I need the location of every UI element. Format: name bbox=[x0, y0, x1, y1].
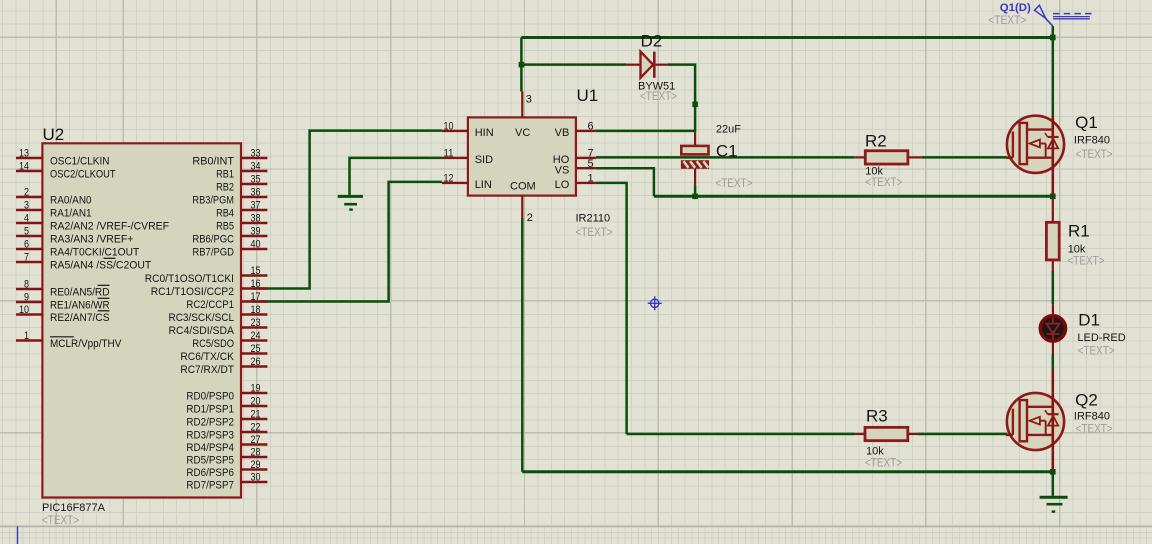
svg-text:RD6/PSP6: RD6/PSP6 bbox=[186, 467, 234, 479]
svg-text:RC1/T1OSI/CCP2: RC1/T1OSI/CCP2 bbox=[151, 286, 234, 298]
LED D1 LED-RED bbox=[1040, 304, 1065, 354]
svg-text:RA1/AN1: RA1/AN1 bbox=[50, 207, 92, 219]
svg-text:VS: VS bbox=[555, 164, 570, 176]
wire R2 to Q1 gate bbox=[921, 156, 1007, 159]
U1 pin 5 VS bbox=[555, 158, 596, 177]
svg-text:37: 37 bbox=[251, 200, 261, 212]
svg-text:11: 11 bbox=[444, 148, 454, 160]
svg-text:VB: VB bbox=[555, 127, 570, 139]
svg-text:5: 5 bbox=[588, 158, 594, 170]
resistor R3 10k bbox=[854, 427, 918, 440]
svg-text:C1: C1 bbox=[716, 142, 738, 161]
svg-text:VC: VC bbox=[515, 127, 530, 139]
overbar RD bbox=[98, 284, 110, 286]
U2 pin 27 bbox=[241, 434, 267, 446]
svg-text:4: 4 bbox=[24, 213, 29, 225]
capacitor C1 22uF bbox=[681, 132, 709, 185]
svg-text:10k: 10k bbox=[865, 165, 883, 177]
svg-text:14: 14 bbox=[19, 161, 29, 173]
svg-text:10: 10 bbox=[19, 304, 29, 316]
svg-text:12: 12 bbox=[444, 173, 454, 185]
wire U1 VS to source rail bbox=[596, 168, 654, 196]
overbar MCLR bbox=[50, 336, 74, 338]
svg-text:IRF840: IRF840 bbox=[1074, 410, 1110, 422]
U2 pin 22 bbox=[241, 422, 267, 434]
svg-text:HIN: HIN bbox=[475, 127, 494, 139]
U2 pin 18 bbox=[241, 304, 267, 316]
svg-text:15: 15 bbox=[251, 265, 261, 277]
svg-text:R3: R3 bbox=[866, 407, 888, 426]
svg-text:6: 6 bbox=[24, 239, 29, 251]
svg-text:RD1/PSP1: RD1/PSP1 bbox=[186, 403, 234, 415]
svg-text:21: 21 bbox=[251, 409, 261, 421]
U1 pin 11 SID bbox=[442, 148, 493, 167]
svg-text:24: 24 bbox=[251, 330, 261, 342]
svg-text:<TEXT>: <TEXT> bbox=[1076, 424, 1113, 436]
wire VCC top rail bbox=[521, 36, 1052, 39]
ground (bottom rail) bbox=[1040, 497, 1068, 511]
transistor Q2 IRF840 bbox=[1006, 370, 1064, 471]
wire U1 COM down bbox=[521, 218, 524, 472]
wire D2 cathode to C1 node bbox=[668, 65, 695, 133]
overbar CS bbox=[98, 310, 110, 312]
svg-text:<TEXT>: <TEXT> bbox=[576, 227, 613, 239]
svg-text:LED-RED: LED-RED bbox=[1077, 332, 1125, 344]
U2 pin 8 bbox=[16, 279, 42, 291]
svg-text:OSC1/CLKIN: OSC1/CLKIN bbox=[50, 155, 110, 167]
svg-text:22: 22 bbox=[251, 422, 261, 434]
svg-text:RB4: RB4 bbox=[216, 207, 234, 219]
resistor R1 10k (vertical) bbox=[1046, 199, 1059, 272]
svg-text:23: 23 bbox=[251, 317, 261, 329]
svg-text:RC0/T1OSO/T1CKI: RC0/T1OSO/T1CKI bbox=[145, 273, 234, 285]
svg-text:<TEXT>: <TEXT> bbox=[640, 91, 677, 103]
overbar SS bbox=[104, 257, 116, 259]
sheet border corner (blue) bbox=[17, 527, 19, 544]
svg-text:Q2: Q2 bbox=[1075, 390, 1098, 409]
svg-text:RC3/SCK/SCL: RC3/SCK/SCL bbox=[169, 312, 235, 324]
svg-text:RB7/PGD: RB7/PGD bbox=[192, 246, 234, 258]
U2 pin 1 bbox=[16, 330, 42, 342]
U2 pin 10 bbox=[16, 304, 42, 316]
wire U2 RC1 to U1 HIN bbox=[252, 131, 442, 289]
svg-text:RA5/AN4 /SS/C2OUT: RA5/AN4 /SS/C2OUT bbox=[50, 259, 151, 271]
svg-text:10k: 10k bbox=[1068, 243, 1086, 255]
wire C1 bottom to VS rail bbox=[694, 185, 697, 196]
U2 pin 38 bbox=[241, 213, 267, 225]
junction C1 bottom / VS rail bbox=[692, 194, 698, 200]
U2 pin 28 bbox=[241, 447, 267, 459]
svg-text:39: 39 bbox=[251, 226, 261, 238]
svg-text:8: 8 bbox=[24, 279, 29, 291]
svg-text:<TEXT>: <TEXT> bbox=[1068, 256, 1105, 268]
svg-text:D1: D1 bbox=[1078, 311, 1100, 330]
svg-text:RC7/RX/DT: RC7/RX/DT bbox=[180, 364, 234, 376]
U2 pin 6 bbox=[16, 239, 42, 251]
svg-text:RB3/PGM: RB3/PGM bbox=[192, 194, 234, 206]
svg-text:RB5: RB5 bbox=[216, 220, 234, 232]
svg-text:3: 3 bbox=[526, 94, 532, 106]
svg-text:40: 40 bbox=[251, 239, 261, 251]
svg-text:<TEXT>: <TEXT> bbox=[1076, 149, 1113, 161]
wire U1 LO down bbox=[596, 183, 627, 434]
svg-text:RB0/INT: RB0/INT bbox=[192, 155, 234, 167]
svg-text:RE1/AN6/WR: RE1/AN6/WR bbox=[50, 299, 110, 311]
U2 pin 15 bbox=[241, 265, 267, 277]
svg-text:IRF840: IRF840 bbox=[1074, 135, 1110, 147]
U2 pin 30 bbox=[241, 472, 267, 484]
svg-text:35: 35 bbox=[251, 174, 261, 186]
svg-text:RD7/PSP7: RD7/PSP7 bbox=[186, 479, 234, 491]
wire U1 SID to ground bbox=[350, 158, 442, 195]
svg-text:PIC16F877A: PIC16F877A bbox=[42, 502, 106, 514]
wire U1 VB to C1 top bbox=[596, 130, 695, 133]
svg-text:RB2: RB2 bbox=[216, 181, 234, 193]
U2 pin 33 bbox=[241, 148, 267, 160]
svg-text:18: 18 bbox=[251, 304, 261, 316]
wire D1 to Q2 drain bbox=[1052, 355, 1055, 371]
U2 pin 21 bbox=[241, 409, 267, 421]
microcontroller U2 PIC16F877A body bbox=[42, 143, 241, 497]
svg-text:10: 10 bbox=[444, 121, 454, 133]
svg-text:1: 1 bbox=[24, 330, 29, 342]
voltage probe Q1(D) bbox=[1035, 5, 1094, 26]
svg-text:RA3/AN3 /VREF+: RA3/AN3 /VREF+ bbox=[50, 233, 133, 245]
U2 pin 25 bbox=[241, 343, 267, 355]
wire COM rail to Q2 source bbox=[522, 470, 1053, 473]
svg-text:29: 29 bbox=[251, 459, 261, 471]
svg-text:R1: R1 bbox=[1068, 222, 1090, 241]
svg-text:LO: LO bbox=[555, 179, 570, 191]
svg-text:17: 17 bbox=[251, 291, 261, 303]
svg-text:<TEXT>: <TEXT> bbox=[865, 458, 902, 470]
svg-text:RD0/PSP0: RD0/PSP0 bbox=[186, 390, 234, 402]
svg-text:SID: SID bbox=[475, 154, 493, 166]
sheet border bottom edge bbox=[0, 526, 1152, 528]
svg-text:7: 7 bbox=[24, 252, 29, 264]
svg-text:28: 28 bbox=[251, 447, 261, 459]
svg-text:RA2/AN2 /VREF-/CVREF: RA2/AN2 /VREF-/CVREF bbox=[50, 220, 169, 232]
svg-text:9: 9 bbox=[24, 292, 29, 304]
junction top rail / probe bbox=[1050, 35, 1056, 41]
gate driver U1 IR2110 body bbox=[468, 117, 576, 195]
svg-text:1: 1 bbox=[588, 173, 594, 185]
U2 pin 3 bbox=[16, 200, 42, 212]
resistor R2 10k bbox=[854, 151, 921, 164]
svg-text:27: 27 bbox=[251, 434, 261, 446]
overbar WR bbox=[98, 297, 110, 299]
origin marker (blue crosshair) bbox=[648, 296, 662, 310]
svg-text:19: 19 bbox=[251, 383, 261, 395]
svg-text:26: 26 bbox=[251, 356, 261, 368]
U2 pin 7 bbox=[16, 252, 42, 264]
svg-text:20: 20 bbox=[251, 396, 261, 408]
svg-text:OSC2/CLKOUT: OSC2/CLKOUT bbox=[50, 168, 116, 180]
U2 pin 9 bbox=[16, 292, 42, 304]
svg-text:6: 6 bbox=[588, 121, 594, 133]
junction Q1 source / VS rail bbox=[1050, 194, 1056, 200]
U1 pin 1 LO bbox=[555, 173, 596, 192]
U2 pin 26 bbox=[241, 356, 267, 368]
wire VCC to D2 anode bbox=[521, 63, 626, 66]
U2 pin 17 bbox=[241, 291, 267, 303]
U2 pin 4 bbox=[16, 213, 42, 225]
wire U1 HO to R2 to Q1 gate bbox=[596, 156, 854, 159]
svg-text:<TEXT>: <TEXT> bbox=[865, 177, 902, 189]
junction Q2 source / COM rail bbox=[1050, 469, 1056, 475]
svg-text:<TEXT>: <TEXT> bbox=[988, 13, 1026, 27]
svg-text:33: 33 bbox=[251, 148, 261, 160]
ground (U1 SID) bbox=[338, 196, 363, 209]
svg-text:36: 36 bbox=[251, 187, 261, 199]
svg-text:22uF: 22uF bbox=[716, 124, 741, 136]
svg-text:Q1: Q1 bbox=[1075, 113, 1098, 132]
svg-text:<TEXT>: <TEXT> bbox=[715, 178, 752, 190]
svg-text:RC5/SDO: RC5/SDO bbox=[192, 338, 234, 350]
junction VCC/D2 branch bbox=[519, 62, 525, 68]
svg-text:10k: 10k bbox=[866, 446, 884, 458]
wire R1 to D1 bbox=[1052, 271, 1055, 304]
U1 pin 12 LIN bbox=[442, 173, 492, 192]
U2 pin 37 bbox=[241, 200, 267, 212]
svg-text:RD3/PSP3: RD3/PSP3 bbox=[186, 429, 234, 441]
U2 pin 19 bbox=[241, 383, 267, 395]
wire LO to R3 bbox=[627, 433, 855, 436]
U2 pin 2 bbox=[16, 187, 42, 199]
svg-text:RD5/PSP5: RD5/PSP5 bbox=[186, 454, 234, 466]
junction D2-C1 node bbox=[692, 102, 698, 108]
U2 pin 20 bbox=[241, 396, 267, 408]
svg-text:30: 30 bbox=[251, 472, 261, 484]
wire VCC rail to U1 VC bbox=[520, 38, 523, 92]
U2 pin 29 bbox=[241, 459, 267, 471]
transistor Q1 IRF840 bbox=[1006, 116, 1064, 194]
U2 pin 36 bbox=[241, 187, 267, 199]
svg-text:RB1: RB1 bbox=[216, 168, 234, 180]
wire Q2 source to ground bbox=[1052, 470, 1055, 496]
svg-text:LIN: LIN bbox=[475, 179, 492, 191]
svg-text:D2: D2 bbox=[641, 32, 663, 51]
svg-text:RC2/CCP1: RC2/CCP1 bbox=[186, 299, 234, 311]
U2 pin 24 bbox=[241, 330, 267, 342]
svg-text:U2: U2 bbox=[43, 125, 65, 144]
U2 pin 23 bbox=[241, 317, 267, 329]
wire U2 RC2 to U1 LIN bbox=[252, 182, 442, 302]
svg-text:RE2/AN7/CS: RE2/AN7/CS bbox=[50, 312, 110, 324]
svg-text:<TEXT>: <TEXT> bbox=[42, 515, 79, 527]
svg-text:RA4/T0CKI/C1OUT: RA4/T0CKI/C1OUT bbox=[50, 246, 139, 258]
svg-text:COM: COM bbox=[510, 181, 536, 193]
U2 pin 34 bbox=[241, 161, 267, 173]
U1 pin 2 COM bbox=[510, 181, 536, 224]
svg-text:16: 16 bbox=[251, 278, 261, 290]
svg-text:2: 2 bbox=[24, 187, 29, 199]
svg-text:RD2/PSP2: RD2/PSP2 bbox=[186, 416, 234, 428]
diode D2 BYW51 bbox=[626, 52, 667, 78]
svg-text:2: 2 bbox=[527, 212, 533, 224]
svg-text:RC6/TX/CK: RC6/TX/CK bbox=[180, 351, 234, 363]
svg-text:RA0/AN0: RA0/AN0 bbox=[50, 194, 92, 206]
wire probe stub bbox=[1052, 26, 1055, 37]
wire VS rail bbox=[654, 195, 1053, 198]
U2 pin 16 bbox=[241, 278, 267, 290]
U2 pin 39 bbox=[241, 226, 267, 238]
svg-text:38: 38 bbox=[251, 213, 261, 225]
U2 pin 13 bbox=[16, 148, 42, 160]
svg-text:RC4/SDI/SDA: RC4/SDI/SDA bbox=[169, 325, 235, 337]
svg-text:13: 13 bbox=[19, 148, 29, 160]
svg-text:U1: U1 bbox=[577, 86, 599, 105]
svg-text:5: 5 bbox=[24, 226, 29, 238]
svg-text:RE0/AN5/RD: RE0/AN5/RD bbox=[50, 286, 110, 298]
U1 pin 6 VB bbox=[555, 121, 596, 140]
wire R3 to Q2 gate bbox=[919, 433, 1008, 436]
U2 pin 14 bbox=[16, 161, 42, 173]
svg-text:MCLR/Vpp/THV: MCLR/Vpp/THV bbox=[50, 338, 122, 350]
svg-text:RB6/PGC: RB6/PGC bbox=[192, 233, 234, 245]
U2 pin 40 bbox=[241, 239, 267, 251]
U2 pin 35 bbox=[241, 174, 267, 186]
svg-text:RD4/PSP4: RD4/PSP4 bbox=[186, 442, 234, 454]
svg-text:3: 3 bbox=[24, 200, 29, 212]
wire rail to Q1 drain bbox=[1052, 38, 1055, 117]
U1 pin 3 VC bbox=[515, 92, 532, 139]
U2 pin 5 bbox=[16, 226, 42, 238]
svg-text:R2: R2 bbox=[865, 132, 887, 151]
U1 pin 7 HO bbox=[553, 148, 596, 167]
svg-text:25: 25 bbox=[251, 343, 261, 355]
U1 pin 10 HIN bbox=[442, 121, 494, 140]
svg-text:<TEXT>: <TEXT> bbox=[1078, 346, 1115, 358]
svg-text:34: 34 bbox=[251, 161, 261, 173]
svg-text:IR2110: IR2110 bbox=[576, 213, 611, 225]
